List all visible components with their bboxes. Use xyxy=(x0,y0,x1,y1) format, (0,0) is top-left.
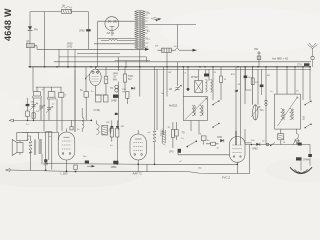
coil L2 core xyxy=(102,125,108,135)
resistor R10 xyxy=(110,120,113,141)
svg-text:(TmB): (TmB) xyxy=(94,110,101,112)
svg-text:.Ph: .Ph xyxy=(34,28,39,32)
svg-text:TO: TO xyxy=(182,132,185,135)
fuse F1 xyxy=(62,4,73,13)
wire link xyxy=(31,155,148,172)
wire pickup input xyxy=(9,119,91,122)
wire anode supply xyxy=(145,25,196,49)
output transformer T2 xyxy=(17,132,42,164)
AF tube V4 ECL11 xyxy=(130,130,146,175)
output tube V3 EL11 xyxy=(58,120,75,175)
wire oscillator drops xyxy=(164,62,213,135)
jack J2 xyxy=(265,100,267,105)
svg-text:Jm: Jm xyxy=(48,136,51,138)
diode D4 xyxy=(252,143,260,151)
capacitor C17 xyxy=(169,149,181,154)
svg-text:J50: J50 xyxy=(254,48,259,51)
wire left drops xyxy=(33,67,86,93)
svg-text:CWm: CWm xyxy=(294,140,300,143)
antenna A1 xyxy=(272,43,318,67)
node bottom junctions xyxy=(45,163,238,172)
jack J1 xyxy=(110,85,118,92)
capacitor C20 xyxy=(296,157,310,161)
wire bus main xyxy=(29,66,312,68)
detector tube V5 xyxy=(222,137,245,180)
ground chassis xyxy=(290,145,312,174)
svg-text:FVC Z: FVC Z xyxy=(222,175,230,179)
capacitor C8 xyxy=(111,95,119,103)
capacitor C13 xyxy=(204,74,238,93)
wire detector feed xyxy=(86,69,157,130)
wire right mid drops xyxy=(236,67,310,145)
coil L7 xyxy=(82,108,84,132)
svg-text:AAF 72: AAF 72 xyxy=(133,171,143,175)
svg-text:TO: TO xyxy=(110,87,113,90)
resistor R5 xyxy=(123,67,133,92)
rectifier tube V1 AZ11 xyxy=(105,17,119,35)
resistor R7 xyxy=(96,95,109,102)
coil L3 oscillator xyxy=(206,79,213,92)
switch S3b xyxy=(305,124,312,129)
diode D2 xyxy=(131,87,135,90)
wire right low line xyxy=(245,129,310,144)
variable capacitor C14 tuning xyxy=(251,105,264,120)
dial lamp arrows xyxy=(151,17,161,21)
coil L5 xyxy=(153,67,156,165)
svg-text:1PWh: 1PWh xyxy=(303,158,310,161)
resistor R14 xyxy=(220,67,227,100)
diode D1 xyxy=(28,26,39,31)
wire speaker top xyxy=(22,132,59,140)
resistor R15 xyxy=(251,67,259,104)
svg-text:JTU: JTU xyxy=(297,64,302,67)
node AF junction xyxy=(90,120,92,122)
IF transformer IF1 xyxy=(169,97,208,133)
capacitor C19 xyxy=(294,140,302,146)
loudspeaker LS xyxy=(12,140,23,156)
wire mains top loop xyxy=(30,12,88,67)
wire bus upper xyxy=(54,61,311,63)
svg-text:1PBF: 1PBF xyxy=(111,100,118,103)
capacitor C4 xyxy=(26,98,30,111)
capacitor C27 xyxy=(115,113,118,115)
capacitor C15 xyxy=(44,159,47,162)
trimmer C5 xyxy=(27,98,38,121)
contact box S1c xyxy=(58,93,66,98)
coil L4 xyxy=(297,129,299,144)
capacitor C22 xyxy=(44,160,48,170)
capacitor C24 xyxy=(85,161,95,168)
capacitor C18 xyxy=(201,136,206,145)
wire rectifier connections xyxy=(94,21,135,67)
svg-text:JPBZ: JPBZ xyxy=(252,148,258,151)
resistor R2 field xyxy=(158,48,198,52)
wire coil drops xyxy=(44,69,75,132)
IF transformer IF2 xyxy=(275,94,306,129)
svg-text:Am 888 + 4Z: Am 888 + 4Z xyxy=(272,57,288,61)
diode D3 xyxy=(217,136,224,142)
tube V2 EBF11 xyxy=(85,67,101,95)
wire bottom bus 1 xyxy=(46,163,238,166)
svg-text:2R: 2R xyxy=(26,40,29,44)
resistor R8 xyxy=(175,122,185,140)
switch S5 xyxy=(270,143,275,147)
svg-text:4648 W: 4648 W xyxy=(3,8,13,41)
wire center drops xyxy=(95,49,150,130)
svg-text:AZ 11: AZ 11 xyxy=(107,31,115,35)
svg-text:TS!: TS! xyxy=(122,92,126,94)
jack J3 xyxy=(266,143,269,146)
svg-text:JF50: JF50 xyxy=(79,29,85,32)
node junctions on main bus xyxy=(29,66,311,68)
node heater junctions xyxy=(44,66,76,68)
power transformer T1 xyxy=(135,10,151,49)
switch S4 xyxy=(187,140,198,147)
resistor R9 xyxy=(278,129,284,144)
resistor R12 xyxy=(171,122,174,148)
svg-text:Tm: Tm xyxy=(161,93,164,95)
svg-text:AM25Z: AM25Z xyxy=(169,103,178,107)
contact box S1b xyxy=(47,92,56,99)
filament heater V1 xyxy=(101,39,135,41)
trimmer C9 xyxy=(109,127,112,135)
wire bottom bus 2 xyxy=(6,145,250,174)
contact box S1a xyxy=(33,92,42,98)
text labels scatter xyxy=(26,46,299,170)
svg-text:JPW: JPW xyxy=(217,136,223,139)
trimmer C10 xyxy=(169,85,182,91)
capacitor C1 xyxy=(67,12,91,50)
resistor R4 xyxy=(104,67,108,95)
resistor R11 xyxy=(116,120,119,160)
resistor R6 xyxy=(126,92,129,104)
capacitor C28 caps xyxy=(111,126,119,128)
svg-text:JPBF: JPBF xyxy=(111,166,118,169)
capacitor C23 xyxy=(74,165,78,169)
capacitor C25 xyxy=(244,67,253,90)
wire oscillator gang dark lead xyxy=(235,131,237,145)
resistor R3 xyxy=(26,111,30,120)
capacitor C3 xyxy=(254,48,261,67)
svg-text:JPG: JPG xyxy=(169,151,174,154)
svg-text:1M: 1M xyxy=(198,134,201,136)
wire AF coupling xyxy=(178,143,252,155)
svg-text:Ttm: Ttm xyxy=(260,109,264,112)
coil L1 xyxy=(97,120,100,134)
wire AF line xyxy=(36,86,62,88)
capacitor C2 antenna xyxy=(297,63,310,66)
switch S3a xyxy=(305,101,312,106)
trimmer C7 xyxy=(46,99,53,120)
resistor R1 xyxy=(26,40,34,48)
wire heater line xyxy=(34,46,149,51)
paper mottling xyxy=(0,8,320,189)
potentiometer P1 xyxy=(293,139,298,145)
svg-text:IDO: IDO xyxy=(303,116,306,120)
wire bottom verticals xyxy=(46,132,52,170)
capacitor C16 xyxy=(111,161,119,170)
svg-text:5/V: 5/V xyxy=(128,78,132,81)
switch S2b xyxy=(212,123,219,128)
coil L6 xyxy=(162,130,165,145)
svg-text:WH: WH xyxy=(113,79,117,82)
capacitor C12 padder xyxy=(195,81,203,93)
switch S2a xyxy=(212,100,219,105)
wire bus lower xyxy=(96,68,311,70)
capacitor C21 xyxy=(308,154,312,157)
trimmer C6 xyxy=(38,98,45,120)
svg-text:JPTZZ: JPTZZ xyxy=(191,76,199,79)
svg-text:LF50: LF50 xyxy=(67,45,73,48)
wire heater mid xyxy=(45,49,121,132)
svg-text:JPG: JPG xyxy=(231,74,236,76)
contact box S1d xyxy=(80,89,89,97)
resistor R13 xyxy=(206,142,219,145)
wire dial line xyxy=(59,49,167,67)
text block labels xyxy=(113,73,119,82)
capacitor C11 xyxy=(187,76,199,91)
capacitor C26 xyxy=(260,69,264,95)
